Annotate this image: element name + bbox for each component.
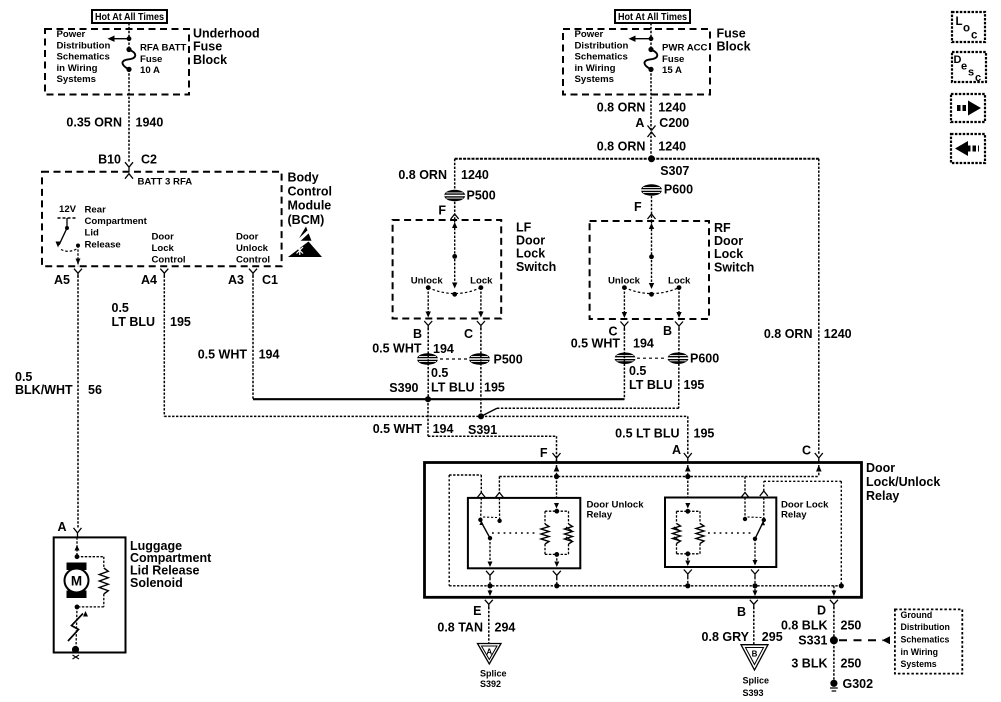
svg-text:1940: 1940 [136, 116, 164, 130]
svg-text:Door: Door [714, 234, 743, 248]
svg-text:Lock: Lock [516, 247, 545, 261]
svg-text:Control: Control [288, 184, 332, 198]
svg-text:195: 195 [170, 315, 191, 329]
svg-text:E: E [473, 604, 481, 618]
svg-text:Hot At All Times: Hot At All Times [618, 12, 687, 23]
svg-text:1240: 1240 [461, 168, 489, 182]
svg-text:S390: S390 [389, 381, 418, 395]
svg-text:Fuse: Fuse [140, 54, 162, 65]
svg-text:Fuse: Fuse [717, 26, 746, 40]
svg-text:A: A [57, 520, 66, 534]
svg-text:Module: Module [288, 199, 332, 213]
svg-text:1240: 1240 [824, 327, 852, 341]
svg-text:A: A [672, 443, 681, 457]
svg-text:o: o [963, 23, 970, 35]
svg-text:Switch: Switch [516, 260, 556, 274]
svg-text:Schematics: Schematics [57, 52, 110, 63]
svg-text:0.5: 0.5 [431, 366, 448, 380]
svg-text:(BCM): (BCM) [288, 213, 325, 227]
svg-text:LT BLU: LT BLU [431, 381, 475, 395]
svg-text:12V: 12V [59, 204, 77, 215]
svg-text:C: C [464, 327, 473, 341]
svg-text:0.35 ORN: 0.35 ORN [66, 116, 122, 130]
svg-text:1240: 1240 [658, 140, 686, 154]
svg-text:Lock: Lock [152, 243, 175, 254]
svg-text:0.5: 0.5 [15, 370, 32, 384]
svg-text:in Wiring: in Wiring [57, 63, 98, 74]
svg-text:Lock: Lock [470, 276, 493, 287]
svg-text:Body: Body [288, 170, 319, 184]
svg-text:C1: C1 [262, 273, 278, 287]
svg-text:Door: Door [236, 231, 259, 242]
svg-text:15 A: 15 A [662, 65, 682, 76]
svg-text:c: c [971, 30, 978, 42]
svg-text:BLK/WHT: BLK/WHT [15, 383, 73, 397]
svg-text:195: 195 [684, 378, 705, 392]
svg-text:194: 194 [433, 342, 454, 356]
svg-text:A5: A5 [54, 273, 70, 287]
svg-text:Block: Block [717, 40, 751, 54]
svg-text:P500: P500 [467, 189, 496, 203]
svg-text:P600: P600 [664, 183, 693, 197]
svg-text:RFA BATT: RFA BATT [140, 42, 187, 53]
svg-text:0.5 WHT: 0.5 WHT [373, 422, 423, 436]
svg-text:250: 250 [841, 619, 862, 633]
svg-text:F: F [540, 446, 548, 460]
svg-text:Relay: Relay [781, 510, 807, 521]
svg-text:Control: Control [236, 255, 270, 266]
svg-text:LT BLU: LT BLU [629, 378, 673, 392]
svg-text:194: 194 [633, 337, 654, 351]
svg-text:G302: G302 [843, 677, 874, 691]
svg-text:BATT 3 RFA: BATT 3 RFA [138, 177, 193, 188]
svg-text:LT BLU: LT BLU [112, 315, 156, 329]
svg-text:0.8 TAN: 0.8 TAN [437, 621, 483, 635]
svg-text:0.5 WHT: 0.5 WHT [372, 342, 422, 356]
svg-text:LF: LF [516, 220, 532, 234]
svg-text:Unlock: Unlock [608, 276, 641, 287]
svg-text:in Wiring: in Wiring [575, 63, 616, 74]
svg-text:Door: Door [152, 231, 175, 242]
svg-text:0.8 ORN: 0.8 ORN [597, 140, 646, 154]
svg-text:194: 194 [259, 348, 280, 362]
svg-text:Fuse: Fuse [662, 54, 684, 65]
svg-text:295: 295 [762, 630, 783, 644]
svg-text:L: L [956, 16, 963, 28]
svg-text:Ground: Ground [901, 610, 933, 620]
svg-text:Fuse: Fuse [193, 40, 222, 54]
svg-text:M: M [71, 574, 82, 589]
svg-text:D: D [817, 604, 826, 618]
svg-text:B10: B10 [98, 153, 121, 167]
svg-text:B: B [737, 605, 746, 619]
svg-text:Systems: Systems [57, 74, 96, 85]
svg-text:0.8 BLK: 0.8 BLK [781, 619, 828, 633]
svg-text:s: s [968, 67, 974, 79]
svg-text:S391: S391 [468, 423, 497, 437]
svg-text:S307: S307 [660, 164, 689, 178]
svg-text:c: c [975, 72, 981, 84]
svg-text:Control: Control [152, 255, 186, 266]
svg-text:0.8 GRY: 0.8 GRY [702, 630, 750, 644]
svg-text:C: C [802, 444, 811, 458]
svg-text:P500: P500 [494, 353, 523, 367]
svg-text:S393: S393 [743, 688, 764, 698]
svg-text:RF: RF [714, 221, 731, 235]
svg-text:0.5 LT BLU: 0.5 LT BLU [615, 427, 679, 441]
svg-text:P600: P600 [690, 352, 719, 366]
svg-text:Rear: Rear [85, 204, 107, 215]
svg-text:Solenoid: Solenoid [130, 576, 183, 590]
svg-text:0.8 ORN: 0.8 ORN [597, 101, 646, 115]
svg-text:A3: A3 [228, 273, 244, 287]
svg-text:Schematics: Schematics [901, 634, 950, 644]
svg-text:Distribution: Distribution [57, 40, 111, 51]
svg-text:0.8 ORN: 0.8 ORN [764, 327, 813, 341]
svg-text:Door: Door [516, 233, 545, 247]
svg-text:e: e [961, 61, 967, 73]
svg-text:A4: A4 [141, 273, 157, 287]
svg-text:Lock: Lock [668, 276, 691, 287]
svg-text:56: 56 [88, 383, 102, 397]
svg-text:0.5 WHT: 0.5 WHT [198, 348, 248, 362]
svg-text:Compartment: Compartment [85, 216, 148, 227]
svg-text:0.8 ORN: 0.8 ORN [398, 168, 447, 182]
svg-text:Splice: Splice [743, 676, 770, 686]
svg-text:0.5: 0.5 [629, 364, 646, 378]
svg-text:1240: 1240 [658, 101, 686, 115]
svg-text:Hot At All Times: Hot At All Times [95, 12, 164, 23]
svg-text:Splice: Splice [480, 669, 507, 679]
svg-text:294: 294 [495, 621, 516, 635]
svg-text:250: 250 [841, 657, 862, 671]
svg-text:Unlock: Unlock [236, 243, 269, 254]
svg-text:Block: Block [193, 53, 227, 67]
svg-text:Schematics: Schematics [575, 52, 628, 63]
svg-text:195: 195 [694, 427, 715, 441]
svg-text:S392: S392 [480, 679, 501, 689]
svg-text:Systems: Systems [575, 74, 614, 85]
svg-text:Release: Release [85, 239, 121, 250]
svg-text:Power: Power [57, 29, 86, 40]
svg-text:C200: C200 [659, 116, 689, 130]
svg-text:F: F [438, 204, 446, 218]
svg-text:Systems: Systems [901, 659, 937, 669]
svg-text:Relay: Relay [587, 510, 613, 521]
svg-text:A: A [486, 648, 492, 657]
svg-text:in Wiring: in Wiring [901, 647, 939, 657]
svg-text:Distribution: Distribution [575, 40, 629, 51]
svg-text:Door: Door [866, 461, 895, 475]
svg-text:B: B [752, 650, 758, 659]
svg-text:3 BLK: 3 BLK [791, 657, 827, 671]
svg-text:0.5: 0.5 [112, 301, 129, 315]
svg-text:F: F [634, 200, 642, 214]
svg-text:C2: C2 [141, 153, 157, 167]
svg-text:194: 194 [433, 422, 454, 436]
svg-text:S331: S331 [798, 634, 827, 648]
svg-text:Switch: Switch [714, 260, 754, 274]
svg-text:Relay: Relay [866, 489, 899, 503]
svg-text:10 A: 10 A [140, 65, 160, 76]
svg-text:Unlock: Unlock [411, 276, 444, 287]
svg-text:A: A [635, 116, 644, 130]
svg-text:0.5 WHT: 0.5 WHT [571, 337, 621, 351]
svg-text:PWR ACC: PWR ACC [662, 42, 708, 53]
svg-text:B: B [663, 324, 672, 338]
svg-text:B: B [413, 327, 422, 341]
svg-text:Lid: Lid [85, 228, 100, 239]
svg-text:195: 195 [484, 381, 505, 395]
svg-text:Power: Power [575, 29, 604, 40]
svg-text:Distribution: Distribution [901, 622, 950, 632]
svg-text:Underhood: Underhood [193, 26, 260, 40]
svg-text:Lock/Unlock: Lock/Unlock [866, 475, 940, 489]
svg-text:Lock: Lock [714, 247, 743, 261]
